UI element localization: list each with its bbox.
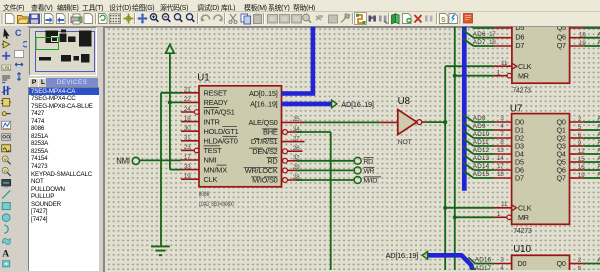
svg-text:NOT: NOT [398,139,412,146]
svg-text:AD6: AD6 [473,31,486,38]
svg-text:CLK: CLK [518,62,532,71]
svg-text:Q0: Q0 [557,259,566,268]
svg-text:MN/MX: MN/MX [204,165,228,174]
svg-text:INTR: INTR [204,117,220,126]
svg-text:14: 14 [497,155,504,162]
svg-text:U8: U8 [398,96,410,107]
svg-text:HLDA/GT0: HLDA/GT0 [204,137,238,146]
svg-text:WR: WR [364,168,375,175]
svg-text:17: 17 [497,163,504,170]
svg-text:AD8: AD8 [473,115,486,122]
svg-text:D7: D7 [515,174,524,183]
svg-text:AD16: AD16 [475,257,492,264]
svg-text:CLK: CLK [204,175,218,184]
svg-text:Q5: Q5 [557,23,566,32]
svg-text:CLK: CLK [518,203,532,212]
svg-text:A[16..19]: A[16..19] [250,99,278,108]
svg-text:18: 18 [497,171,504,178]
svg-text:U7: U7 [510,103,522,114]
svg-text:33: 33 [184,163,191,170]
svg-text:16: 16 [578,164,585,171]
svg-text:AD[0..15]: AD[0..15] [249,89,278,98]
svg-text:27: 27 [293,135,300,142]
svg-text:74273: 74273 [513,228,532,235]
svg-text:18: 18 [184,115,191,122]
svg-text:Q7: Q7 [557,174,566,183]
svg-text:AD15: AD15 [473,171,490,178]
svg-text:AD[16..19]: AD[16..19] [386,251,419,260]
svg-text:17: 17 [489,31,496,38]
svg-text:Q7: Q7 [557,41,566,50]
svg-text:AD7: AD7 [473,39,486,46]
svg-text:LOAD_SEG=0x0800: LOAD_SEG=0x0800 [199,201,234,208]
svg-text:M/IO: M/IO [364,178,378,185]
svg-text:NMI: NMI [116,157,130,166]
svg-text:U10: U10 [513,244,531,255]
svg-text:HOLD/GT1: HOLD/GT1 [204,127,239,136]
svg-text:D5: D5 [515,23,524,32]
svg-text:RD: RD [364,158,374,165]
svg-text:12: 12 [578,148,585,155]
svg-text:NMI: NMI [204,156,217,165]
svg-text:16: 16 [579,32,586,39]
svg-text:31: 31 [184,135,191,142]
svg-text:D0: D0 [518,259,527,268]
svg-text:U1: U1 [197,73,209,84]
svg-text:18: 18 [489,39,496,46]
svg-text:22: 22 [184,96,191,103]
svg-text:AD[16..19]: AD[16..19] [341,100,374,109]
svg-text:23: 23 [184,144,191,151]
svg-text:AD11: AD11 [473,139,489,146]
svg-text:24: 24 [184,106,191,113]
svg-text:READY: READY [204,98,229,107]
svg-text:21: 21 [184,87,191,94]
svg-text:30: 30 [184,125,191,132]
svg-text:ALE/QS0: ALE/QS0 [248,118,277,127]
svg-text:74273: 74273 [512,88,531,95]
svg-text:AD13: AD13 [473,155,490,162]
svg-text:13: 13 [497,147,504,154]
svg-text:AD17: AD17 [475,265,492,270]
svg-text:19: 19 [184,173,191,180]
svg-text:MR: MR [518,71,529,80]
svg-text:15: 15 [578,156,585,163]
svg-text:11: 11 [501,201,508,208]
svg-text:D7: D7 [515,41,524,50]
svg-text:26: 26 [293,145,300,152]
svg-text:19: 19 [579,40,586,47]
svg-text:17: 17 [184,154,191,161]
svg-text:25: 25 [293,116,300,123]
svg-text:8086: 8086 [199,191,210,198]
svg-text:TEST: TEST [204,146,223,155]
svg-text:RESET: RESET [204,89,228,98]
svg-text:AD9: AD9 [473,123,486,130]
svg-text:MR: MR [518,213,529,222]
svg-text:AD10: AD10 [473,131,490,138]
svg-text:AD12: AD12 [473,147,490,154]
svg-text:19: 19 [578,172,585,179]
svg-text:11: 11 [501,60,508,67]
svg-text:AD14: AD14 [473,163,490,170]
svg-text:INTA/QS1: INTA/QS1 [204,108,235,117]
